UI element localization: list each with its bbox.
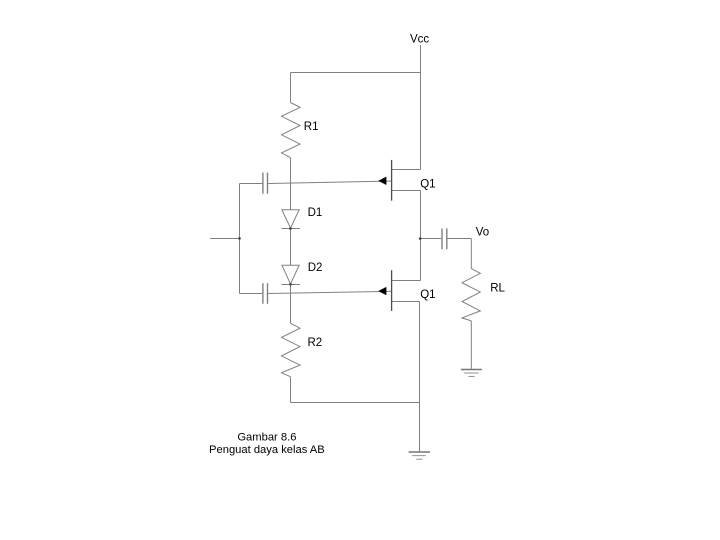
svg-text:Q1: Q1 bbox=[420, 289, 435, 301]
svg-text:Penguat daya kelas AB: Penguat daya kelas AB bbox=[209, 444, 325, 456]
svg-text:R1: R1 bbox=[304, 121, 319, 133]
svg-text:D1: D1 bbox=[308, 207, 323, 219]
svg-text:D2: D2 bbox=[308, 262, 323, 274]
svg-text:Vcc: Vcc bbox=[410, 33, 429, 45]
svg-text:Gambar 8.6: Gambar 8.6 bbox=[237, 431, 296, 443]
svg-text:R2: R2 bbox=[308, 337, 323, 349]
svg-text:RL: RL bbox=[490, 282, 505, 294]
svg-text:Vo: Vo bbox=[476, 226, 489, 238]
svg-text:Q1: Q1 bbox=[420, 179, 435, 191]
